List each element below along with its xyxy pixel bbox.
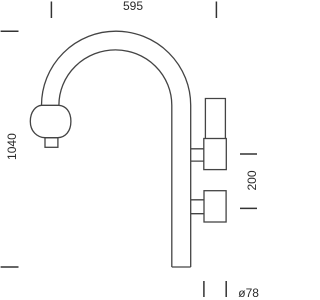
svg-text:ø78: ø78 xyxy=(238,286,259,300)
svg-text:595: 595 xyxy=(123,0,143,13)
svg-text:1040: 1040 xyxy=(5,133,19,160)
svg-text:200: 200 xyxy=(245,170,259,190)
